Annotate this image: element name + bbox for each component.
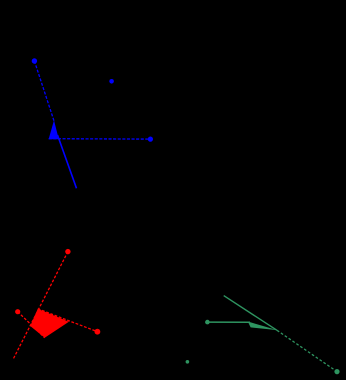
dashed diagonal to point G3 (green) xyxy=(277,330,337,371)
point R3 (red dot) xyxy=(95,329,101,335)
solid ray below triangle (blue) xyxy=(58,135,77,188)
filled arrowhead wedge (green) xyxy=(248,322,277,331)
point R1 (red dot) xyxy=(65,249,70,254)
45-degree dashed segment from point R2 (red) xyxy=(18,312,45,338)
point G2 (green dot) xyxy=(186,360,190,364)
point G1 (green dot) xyxy=(205,320,210,325)
filled arrowhead triangle (blue) xyxy=(49,120,59,139)
point B (blue dot) xyxy=(109,79,114,84)
point G3 (green dot) xyxy=(334,369,339,374)
steep dashed line from point R1 (red) xyxy=(14,252,68,359)
point R2 (red dot) xyxy=(15,309,20,314)
horizontal dashed segment to point E (blue) xyxy=(49,138,151,140)
point E (blue dot) xyxy=(148,137,153,142)
dashed segment from point A to arrowhead apex (blue) xyxy=(34,61,54,122)
filled quadrilateral (red) xyxy=(30,309,69,338)
solid diagonal line (green) xyxy=(224,296,277,331)
point A (blue dot) xyxy=(32,58,37,63)
shallow dashed line to point R3 (red) xyxy=(38,309,98,332)
horizontal solid segment from point G1 (green) xyxy=(207,321,250,323)
